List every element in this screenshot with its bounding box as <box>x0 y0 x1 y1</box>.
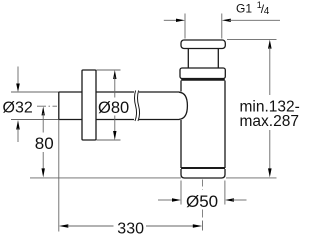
svg-text:330: 330 <box>117 221 144 235</box>
dimension G1 1/4: left arrow <box>164 19 178 21</box>
trap body: cup sides <box>180 81 182 92</box>
svg-text:G1: G1 <box>236 2 252 16</box>
wire: pipe bottom edge extension line (left of pipe end) <box>11 119 59 121</box>
dimension Ø80: extension lines <box>97 69 121 71</box>
trap body: joint line under flange <box>181 79 225 81</box>
nut bullet: pipe connection nut <box>179 92 187 119</box>
svg-text:4: 4 <box>264 6 270 17</box>
rosette: wall flange Ø80 <box>82 70 96 140</box>
dimension min/max: bottom extension line <box>226 177 277 179</box>
dimension min/max: vertical line with arrows <box>268 40 272 49</box>
trap body: neck <box>187 49 189 69</box>
dimension Ø32: upper line with arrow <box>17 67 19 86</box>
pipe break symbol (S-break) <box>135 91 140 122</box>
trap body: joint line above bottom cap <box>181 167 225 169</box>
svg-text:Ø80: Ø80 <box>98 99 129 117</box>
dimension Ø50: right arrow <box>225 198 234 201</box>
svg-text:80: 80 <box>35 134 54 153</box>
trap body: bottom cap <box>181 169 225 178</box>
dimension G1 1/4: extension lines <box>184 14 186 39</box>
dimension Ø80: vertical line with arrows <box>113 70 116 79</box>
trap body: top flange (nut) <box>181 40 225 49</box>
dimension Ø50: left arrow <box>158 199 173 201</box>
extension line: pipe end down to 330 dimension <box>58 120 60 232</box>
svg-text:Ø50: Ø50 <box>186 192 218 211</box>
extension line: trap bottom level (left) <box>30 177 181 179</box>
dimension Ø50: extension lines <box>180 181 182 205</box>
trap body: second flange (lock nut) <box>180 68 225 79</box>
centerline of pipe (dash-dot) <box>37 105 57 107</box>
svg-text:max.287: max.287 <box>240 113 299 130</box>
pipe: horizontal inlet pipe Ø32 <box>59 92 180 120</box>
dimension min/max: top extension line <box>227 39 277 41</box>
dimension 80: vertical line with arrows <box>42 106 45 115</box>
wire: pipe top edge extension line (left of pipe end) <box>11 91 59 93</box>
svg-text:Ø32: Ø32 <box>3 99 33 116</box>
dimension 330: line with arrows <box>59 224 69 227</box>
dimension G1 1/4: right arrow and line <box>222 19 231 22</box>
dimension Ø32: lower line with arrow <box>16 120 20 130</box>
center axis of trap (dash-dot, below body) <box>202 180 204 191</box>
